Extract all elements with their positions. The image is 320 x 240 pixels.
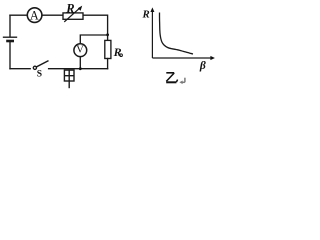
svg-text:β: β bbox=[199, 60, 206, 72]
svg-text:S: S bbox=[37, 70, 42, 80]
svg-text:R: R bbox=[65, 1, 74, 15]
svg-text:A: A bbox=[30, 8, 39, 22]
svg-text:V: V bbox=[76, 45, 84, 56]
svg-text:R: R bbox=[142, 8, 150, 20]
svg-text:R: R bbox=[113, 45, 122, 59]
